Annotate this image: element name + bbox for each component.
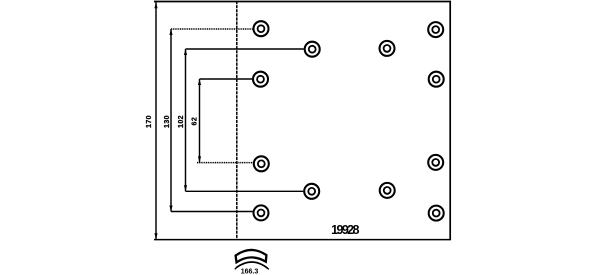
rivet hole L6 bbox=[254, 205, 269, 220]
rivet hole R3 bbox=[429, 72, 444, 87]
svg-text:130: 130 bbox=[164, 115, 171, 128]
rivet hole L4 bbox=[254, 156, 269, 171]
dimension 170 line bbox=[154, 2, 157, 239]
rivet hole R1 bbox=[428, 22, 443, 37]
leader row1 dotted bbox=[171, 28, 253, 30]
dimension 130 line bbox=[169, 29, 172, 212]
plate right edge bbox=[449, 1, 451, 240]
rivet hole MR5 bbox=[380, 183, 395, 198]
leader row4 dotted bbox=[197, 162, 253, 164]
leader row2 bbox=[186, 48, 304, 50]
svg-text:102: 102 bbox=[178, 115, 185, 128]
dimension 62 line bbox=[198, 79, 201, 162]
leader row6 bbox=[171, 211, 253, 213]
lining curvature band bbox=[236, 250, 267, 262]
rivet hole ML2 bbox=[305, 42, 320, 57]
rivet hole L3 bbox=[253, 72, 268, 87]
arc end tick left bbox=[235, 267, 237, 269]
leader row5 bbox=[186, 190, 304, 192]
plate top edge bbox=[154, 1, 451, 3]
dimension 102 line bbox=[184, 49, 187, 191]
leader row3 bbox=[200, 78, 253, 80]
arc end tick right bbox=[267, 268, 269, 270]
curvature arc bbox=[236, 262, 267, 268]
svg-text:62: 62 bbox=[191, 117, 198, 126]
svg-text:19928: 19928 bbox=[331, 223, 359, 237]
rivet hole ML5 bbox=[304, 184, 319, 199]
svg-text:170: 170 bbox=[146, 115, 153, 128]
dashed center line bbox=[236, 1, 238, 240]
rivet hole MR2 bbox=[380, 41, 395, 56]
plate bottom edge bbox=[154, 239, 451, 241]
svg-text:166.3: 166.3 bbox=[241, 269, 259, 275]
rivet hole R6 bbox=[429, 206, 444, 221]
rivet hole L1 bbox=[254, 21, 269, 36]
rivet hole R4 bbox=[428, 155, 443, 170]
